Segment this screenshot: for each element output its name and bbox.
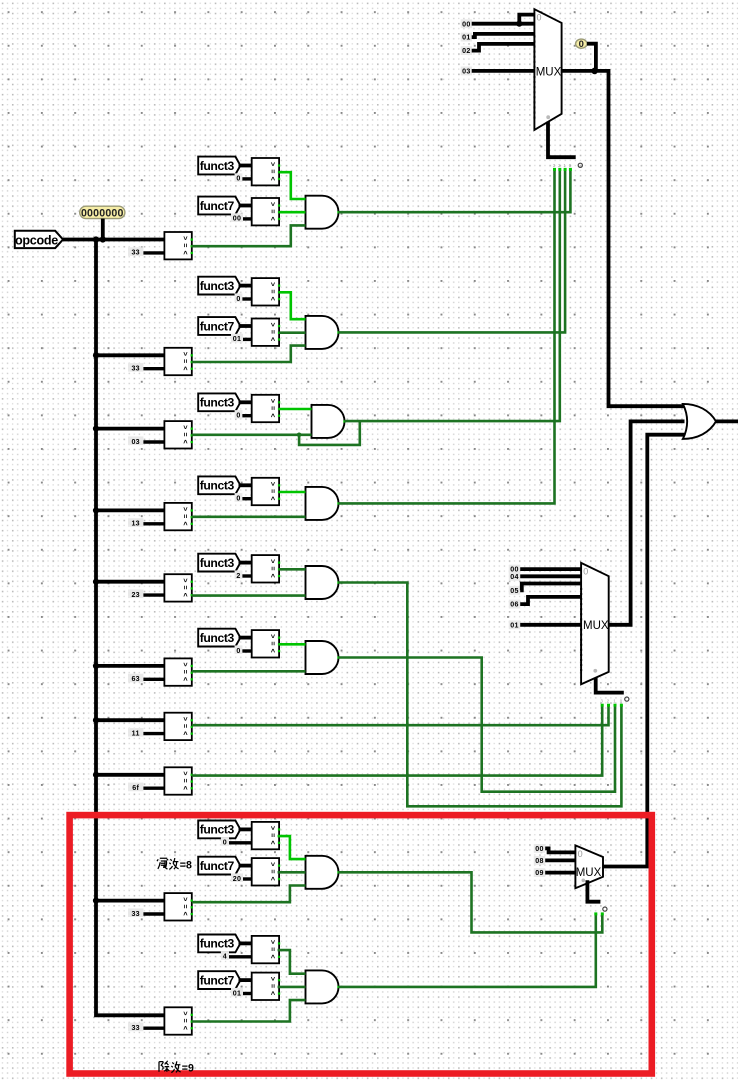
wire CMP1 out to G1 bottom (elbow) bbox=[192, 225, 306, 246]
comparator CMP1 (opcode==33) bbox=[164, 232, 193, 259]
input pin opcode bbox=[15, 231, 63, 248]
comparator A2 (funct3==0) bbox=[252, 278, 280, 305]
comparator CMP2 (opcode==33) bbox=[164, 348, 193, 375]
comparator B2 (funct7==01) bbox=[252, 319, 280, 346]
wire bus branch row 9 bbox=[96, 899, 164, 903]
comparator A1 (funct3==0) bbox=[252, 158, 280, 185]
svg-text:0: 0 bbox=[236, 295, 240, 303]
svg-text:funct3: funct3 bbox=[200, 479, 235, 493]
wire G6 out to MUX2 select bit1 bbox=[339, 658, 616, 792]
comparator CMP9 (opcode==33) bbox=[164, 893, 193, 920]
comparator A4 (funct3==0) bbox=[252, 478, 280, 505]
AND gate G10 bbox=[306, 970, 340, 1003]
junction bus row 6 bbox=[93, 663, 99, 669]
wire A2 equal out to G2 top (elbow) bbox=[279, 292, 305, 319]
wire B1 equal out to G1 mid bbox=[279, 211, 305, 214]
comparator B1 (funct7==00) bbox=[252, 198, 280, 225]
MUX3 enable circle bbox=[603, 907, 607, 911]
kA1 bbox=[235, 173, 252, 182]
AND gate G5 bbox=[306, 566, 340, 599]
wire 01 to MUX2 bbox=[520, 623, 581, 627]
svg-text:11: 11 bbox=[132, 729, 140, 737]
wire funct3 to A1 bbox=[239, 164, 252, 168]
svg-text:63: 63 bbox=[131, 675, 140, 683]
svg-text:funct3: funct3 bbox=[200, 396, 235, 410]
wire MUX1 output bbox=[562, 71, 687, 406]
svg-text:> = <: > = < bbox=[181, 1011, 188, 1030]
svg-text:08: 08 bbox=[535, 857, 544, 865]
wire CMP4 out to G4 bottom bbox=[192, 515, 306, 518]
AND gate G9 bbox=[306, 856, 340, 889]
svg-text:MUX: MUX bbox=[536, 66, 562, 78]
wire bus branch row 5 bbox=[96, 580, 164, 584]
label 06 MUX2 bbox=[509, 600, 520, 609]
wire CMP3 out to G3 bottom bbox=[192, 433, 312, 436]
wire G9 out to MUX3 select bit1 bbox=[339, 872, 603, 932]
svg-text:2: 2 bbox=[236, 572, 240, 580]
wire 02 to MUX1 bbox=[472, 44, 535, 51]
kB9 bbox=[231, 873, 252, 882]
multiplexer MUX3 bbox=[575, 845, 603, 888]
wire 00 to MUX2 bbox=[520, 567, 581, 571]
junction 00 wire bbox=[516, 21, 522, 27]
wire G3 out to MUX1 select bit1 bbox=[345, 169, 560, 421]
comparator CMP10 (opcode==33) bbox=[164, 1007, 193, 1034]
svg-text:0: 0 bbox=[236, 175, 240, 183]
svg-text:0: 0 bbox=[537, 12, 542, 22]
junction bus row 7 bbox=[93, 717, 99, 723]
text 除法=9 bbox=[159, 1061, 181, 1073]
svg-text:> = <: > = < bbox=[268, 940, 275, 959]
svg-text:33: 33 bbox=[131, 365, 140, 373]
kA10 bbox=[221, 951, 252, 960]
svg-text:05: 05 bbox=[510, 587, 519, 595]
tunnel label funct7 (B10) bbox=[198, 971, 240, 989]
svg-text:0: 0 bbox=[579, 39, 584, 50]
wire CMP9 out to G9 bottom (elbow) bbox=[192, 886, 306, 903]
wire CMP8 out to MUX2 select bit3 bbox=[192, 705, 602, 775]
c7 bbox=[128, 728, 164, 737]
svg-text:06: 06 bbox=[510, 601, 519, 609]
AND gate G6 bbox=[306, 641, 340, 674]
wire funct3 to A5 bbox=[239, 561, 252, 565]
AND gate G1 bbox=[306, 196, 340, 229]
label 01 MUX1 bbox=[461, 33, 472, 42]
wire A10 equal out to G10 top (elbow) bbox=[278, 950, 306, 974]
output pin 0 (yellow) bbox=[576, 39, 587, 50]
MUX1 enable circle bbox=[578, 163, 582, 167]
tunnel label funct3 (A2) bbox=[198, 277, 240, 295]
svg-text:09: 09 bbox=[535, 869, 544, 877]
svg-text:funct3: funct3 bbox=[200, 631, 235, 645]
MUX2 select stub bbox=[596, 678, 624, 693]
wire funct3 to A2 bbox=[239, 284, 252, 288]
red highlight rectangle bbox=[70, 815, 652, 1073]
svg-text:funct3: funct3 bbox=[200, 937, 235, 951]
wire 08 to MUX3 bbox=[545, 859, 575, 863]
wire A1 equal out to G1 top (elbow) bbox=[279, 172, 305, 199]
MUX3 select pin dots bbox=[594, 912, 604, 915]
comparator B10 (funct7==01) bbox=[252, 973, 280, 1000]
wire A4 equal out to G4 top bbox=[279, 491, 305, 494]
wire CMP2 out to G2 bottom (elbow) bbox=[192, 346, 306, 362]
AND gate G3 bbox=[312, 405, 346, 438]
tunnel label funct3 (A9) bbox=[198, 821, 240, 839]
c6 bbox=[128, 674, 164, 683]
svg-text:4: 4 bbox=[223, 953, 227, 961]
wire bus branch row 7 bbox=[96, 718, 164, 722]
svg-text:33: 33 bbox=[131, 1024, 140, 1032]
c3 bbox=[128, 436, 164, 445]
comparator CMP7 (opcode==11) bbox=[164, 713, 193, 740]
OR gate G11 bbox=[683, 404, 716, 439]
junction bus row 3 bbox=[93, 426, 99, 432]
wire funct3 to A10 bbox=[239, 942, 252, 946]
AND gate G2 bbox=[306, 316, 340, 349]
svg-text:> = <: > = < bbox=[181, 578, 188, 597]
svg-text:=8: =8 bbox=[180, 859, 192, 871]
comparator CMP8 (opcode==6f) bbox=[164, 767, 193, 794]
wire 00 to MUX1 bbox=[472, 22, 535, 26]
svg-text:funct7: funct7 bbox=[200, 319, 235, 333]
kB1 bbox=[231, 213, 252, 222]
svg-text:funct7: funct7 bbox=[200, 199, 235, 213]
kB10 bbox=[231, 988, 252, 997]
junction bus row 9 bbox=[93, 898, 99, 904]
svg-text:20: 20 bbox=[233, 875, 242, 883]
wire bus branch row 8 bbox=[96, 773, 164, 777]
wire B9 equal out to G9 mid bbox=[278, 871, 306, 874]
junction MUX1 output bbox=[591, 68, 598, 75]
wire CMP7 out to MUX2 select bit2 bbox=[192, 705, 609, 725]
svg-text:01: 01 bbox=[510, 621, 519, 629]
label 04 MUX2 bbox=[509, 572, 520, 581]
kA4 bbox=[235, 493, 252, 502]
svg-text:> = <: > = < bbox=[181, 897, 188, 916]
comparator CMP4 (opcode==13) bbox=[164, 503, 193, 530]
svg-text:13: 13 bbox=[131, 520, 140, 528]
c2 bbox=[128, 363, 164, 372]
wire B10 equal out to G10 mid bbox=[278, 986, 306, 989]
junction bus row 8 bbox=[93, 772, 99, 778]
svg-text:00: 00 bbox=[535, 845, 544, 853]
svg-text:33: 33 bbox=[131, 910, 140, 918]
svg-text:03: 03 bbox=[462, 68, 471, 76]
wire CMP5 less out to G5 bottom bbox=[192, 594, 306, 597]
text 减法=8 bbox=[157, 858, 179, 869]
MUX2 select pin dots bbox=[601, 704, 623, 707]
kA2 bbox=[235, 293, 252, 302]
label 08 MUX3 bbox=[534, 856, 545, 865]
svg-text:> = <: > = < bbox=[268, 977, 275, 996]
wire CMP10 out to G10 bottom (elbow) bbox=[192, 1000, 306, 1021]
svg-text:0: 0 bbox=[223, 839, 227, 847]
wire 03 to MUX1 bbox=[472, 69, 535, 73]
comparator B9 (funct7==20) bbox=[252, 858, 280, 885]
c5 bbox=[128, 590, 164, 599]
svg-text:0: 0 bbox=[236, 412, 240, 420]
comparator A3 (funct3==0) bbox=[252, 395, 280, 422]
wire B2 equal out to G2 mid bbox=[279, 331, 305, 334]
label 03 MUX1 bbox=[461, 67, 472, 76]
label 00 MUX2 bbox=[509, 565, 520, 574]
wire 05 to MUX2 bbox=[520, 584, 581, 591]
svg-text:funct3: funct3 bbox=[200, 556, 235, 570]
kA9 bbox=[221, 837, 252, 846]
svg-text:6f: 6f bbox=[132, 784, 139, 792]
label 00 MUX1 bbox=[461, 19, 472, 28]
comparator CMP6 (opcode==63) bbox=[164, 658, 193, 685]
MUX1 select stub bbox=[548, 122, 576, 158]
tunnel label funct3 (A4) bbox=[198, 476, 240, 494]
svg-text:23: 23 bbox=[131, 591, 140, 599]
svg-text:> = <: > = < bbox=[181, 507, 188, 526]
junction bus row 2 bbox=[93, 352, 99, 358]
wire pin0 to MUX1 output bbox=[587, 44, 596, 71]
svg-text:> = <: > = < bbox=[268, 482, 275, 501]
tunnel label funct7 (B2) bbox=[198, 317, 240, 335]
MUX1 select pin dots bbox=[553, 168, 572, 171]
wire probe to bus bbox=[101, 219, 105, 240]
multiplexer MUX2 bbox=[580, 563, 609, 684]
svg-text:0: 0 bbox=[236, 495, 240, 503]
svg-text:01: 01 bbox=[233, 989, 242, 997]
junction bus row 4 bbox=[93, 507, 99, 513]
wire A3 equal out to G3 top bbox=[279, 408, 311, 411]
wire MUX3 output to OR bottom bbox=[603, 435, 686, 867]
tunnel label funct3 (A6) bbox=[198, 629, 240, 647]
label 02 MUX1 bbox=[461, 46, 472, 55]
svg-text:> = <: > = < bbox=[268, 202, 275, 221]
svg-text:funct7: funct7 bbox=[200, 973, 235, 987]
tunnel label funct7 (B1) bbox=[198, 197, 240, 215]
junction bus row 1 bbox=[93, 236, 99, 242]
svg-text:> = <: > = < bbox=[181, 352, 188, 371]
svg-text:00: 00 bbox=[233, 215, 242, 223]
comparator A6 (funct3==0) bbox=[252, 630, 280, 657]
junction bus row 5 bbox=[93, 579, 99, 585]
tunnel label funct3 (A3) bbox=[198, 393, 240, 411]
label 09 MUX3 bbox=[534, 868, 545, 877]
svg-text:> = <: > = < bbox=[268, 399, 275, 418]
wire A9 equal out to G9 top (elbow) bbox=[278, 836, 306, 859]
comparator A10 (funct3==4) bbox=[252, 936, 280, 963]
svg-text:> = <: > = < bbox=[181, 663, 188, 682]
kA6 bbox=[235, 645, 252, 654]
wire bus branch row 6 bbox=[96, 664, 164, 668]
svg-text:> = <: > = < bbox=[181, 771, 188, 790]
svg-text:> = <: > = < bbox=[268, 559, 275, 578]
svg-text:opcode: opcode bbox=[15, 233, 58, 247]
wire funct7 to B10 bbox=[239, 978, 252, 982]
svg-text:> = <: > = < bbox=[268, 323, 275, 342]
wire opcode vertical bus bbox=[96, 240, 164, 1016]
probe label 0000000 bbox=[80, 206, 125, 219]
wire 06 to MUX2 bbox=[520, 597, 581, 604]
wire CMP3 branch down-right bbox=[299, 421, 360, 445]
c4 bbox=[128, 518, 164, 527]
wire A6 equal out to G6 top bbox=[279, 643, 305, 646]
wire G2 out to MUX1 select bit2 bbox=[339, 169, 566, 332]
label 05 MUX2 bbox=[509, 586, 520, 595]
comparator CMP3 (opcode==03) bbox=[164, 421, 193, 448]
svg-text:01: 01 bbox=[462, 34, 471, 42]
wire funct3 to A3 bbox=[239, 400, 252, 404]
wire funct3 to A9 bbox=[239, 828, 252, 832]
label 00 MUX3 bbox=[534, 844, 545, 853]
svg-text:MUX: MUX bbox=[583, 620, 609, 632]
comparator CMP5 (opcode==23) bbox=[164, 574, 193, 601]
svg-text:> = <: > = < bbox=[268, 634, 275, 653]
wire G10 out to MUX3 select bit0 bbox=[339, 914, 596, 987]
wire bus branch row 2 bbox=[96, 353, 164, 357]
svg-text:=9: =9 bbox=[182, 1063, 194, 1075]
wire 00 to MUX3 bbox=[545, 848, 575, 852]
AND gate G4 bbox=[306, 487, 340, 520]
tunnel label funct3 (A5) bbox=[198, 554, 240, 572]
wire funct3 to A6 bbox=[239, 636, 252, 640]
wire 01 to MUX1 bbox=[472, 34, 535, 37]
svg-text:0: 0 bbox=[236, 647, 240, 655]
wire G1 out to MUX1 select bit3 bbox=[339, 169, 571, 212]
svg-text:funct3: funct3 bbox=[200, 159, 235, 173]
c8 bbox=[128, 783, 164, 792]
svg-text:04: 04 bbox=[510, 573, 519, 581]
svg-text:> = <: > = < bbox=[268, 826, 275, 845]
c10 bbox=[128, 1023, 164, 1032]
svg-text:0: 0 bbox=[578, 849, 583, 859]
c9 bbox=[128, 908, 164, 917]
MUX3 select stub bbox=[587, 880, 600, 902]
junction CMP3 branch bbox=[297, 433, 302, 438]
wire funct7 to B9 bbox=[239, 864, 252, 868]
svg-text:0: 0 bbox=[583, 566, 588, 576]
wire MUX2 output to OR mid bbox=[609, 421, 685, 624]
svg-text:> = <: > = < bbox=[268, 282, 275, 301]
multiplexer MUX1 bbox=[533, 9, 561, 130]
comparator A9 (funct3==0) bbox=[252, 822, 280, 849]
wire funct7 to B1 bbox=[239, 204, 252, 208]
kA3 bbox=[235, 410, 252, 419]
comparator A5 (funct3==2) bbox=[252, 555, 280, 582]
wire 04 to MUX2 bbox=[520, 574, 581, 578]
kA5 bbox=[235, 570, 252, 579]
svg-text:02: 02 bbox=[462, 47, 471, 55]
svg-text:funct3: funct3 bbox=[200, 823, 235, 837]
MUX1 select pin numbers bbox=[553, 163, 572, 168]
wire 09 to MUX3 bbox=[545, 871, 575, 875]
wire CMP6 out to G6 bottom bbox=[192, 670, 306, 673]
svg-text:33: 33 bbox=[131, 249, 140, 257]
wire G5 out to MUX2 select bit0 bbox=[339, 583, 622, 807]
wire OR output bbox=[716, 419, 738, 423]
svg-text:> = <: > = < bbox=[268, 862, 275, 881]
wire A5 equal out to G5 top bbox=[279, 568, 305, 571]
c1 bbox=[128, 247, 164, 256]
MUX2 select pin numbers bbox=[601, 698, 623, 703]
svg-text:funct7: funct7 bbox=[200, 859, 235, 873]
svg-text:> = <: > = < bbox=[181, 425, 188, 444]
tunnel label funct7 (B9) bbox=[198, 857, 240, 875]
svg-text:funct3: funct3 bbox=[200, 279, 235, 293]
wire bus branch row 3 bbox=[96, 427, 164, 431]
kB2 bbox=[231, 334, 252, 343]
wire funct3 to A4 bbox=[239, 483, 252, 487]
tunnel label funct3 (A10) bbox=[198, 935, 240, 953]
svg-text:> = <: > = < bbox=[181, 717, 188, 736]
svg-text:> = <: > = < bbox=[181, 236, 188, 255]
wire G4 out to MUX1 select bit0 bbox=[339, 169, 555, 503]
svg-text:01: 01 bbox=[233, 335, 242, 343]
MUX2 enable circle bbox=[625, 697, 629, 701]
label 01 MUX2 bbox=[509, 620, 520, 629]
wire funct7 to B2 bbox=[239, 324, 252, 328]
svg-text:> = <: > = < bbox=[268, 162, 275, 181]
junction opcode-probe bbox=[100, 236, 106, 242]
svg-text:0000000: 0000000 bbox=[81, 207, 124, 219]
wire opcode horizontal bus bbox=[63, 238, 164, 242]
svg-text:03: 03 bbox=[131, 438, 140, 446]
svg-text:MUX: MUX bbox=[576, 867, 602, 879]
wire bus branch row 4 bbox=[96, 508, 164, 512]
svg-text:00: 00 bbox=[462, 20, 471, 28]
tunnel label funct3 (A1) bbox=[198, 157, 240, 175]
